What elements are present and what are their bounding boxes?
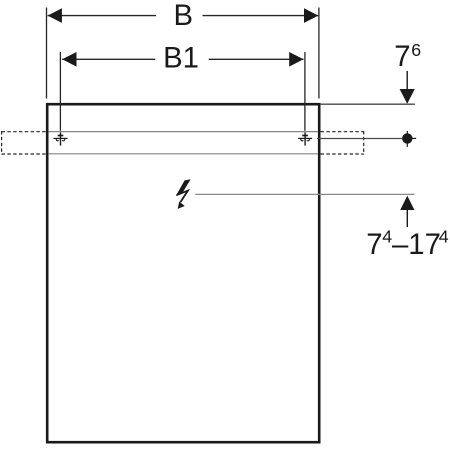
dimension B1 arrowhead left (62, 52, 76, 67)
screw anchor right (298, 132, 312, 145)
dimension B extension line right (318, 8, 320, 99)
svg-text:7: 7 (394, 40, 410, 73)
power connection line (195, 193, 414, 195)
dimension B arrowhead right (304, 8, 318, 23)
dimension B line left segment (48, 15, 156, 17)
dimension B arrowhead left (48, 8, 62, 23)
dimension B1 line left segment (62, 58, 155, 60)
dimension B1 extension line left (59, 52, 61, 131)
svg-text:–17: –17 (392, 228, 441, 261)
dashed rail extension right (321, 131, 364, 155)
fixing point crosshair right tick (410, 137, 416, 139)
dimension 7/6 arrowhead (400, 89, 415, 104)
dimension B1 arrowhead right (289, 52, 303, 67)
dimension B1 extension line right (304, 52, 306, 131)
fixing point line (317, 138, 402, 140)
svg-text:6: 6 (411, 40, 421, 60)
fixing point crosshair vertical (406, 131, 408, 147)
lightning bolt symbol (176, 179, 191, 209)
mounting rail upper line (49, 131, 318, 133)
dimension B1 line right segment (209, 58, 304, 60)
dashed rail extension left (2, 131, 46, 155)
dimension 74-174 arrowhead (400, 196, 414, 210)
fixing point dot (402, 133, 412, 143)
screw anchor left (54, 132, 68, 145)
mirror body outline (47, 104, 319, 442)
top edge reference line (321, 103, 415, 105)
svg-text:4: 4 (382, 227, 392, 247)
dimension B line right segment (203, 15, 319, 17)
svg-text:7: 7 (366, 228, 382, 261)
svg-text:B1: B1 (163, 42, 199, 75)
dimension B extension line left (46, 8, 48, 99)
svg-text:B: B (174, 0, 194, 32)
dimension 74-174 arrow shaft (406, 209, 408, 227)
svg-text:4: 4 (439, 227, 449, 247)
mounting rail lower line (49, 153, 318, 155)
dimension 7/6 arrow shaft (406, 71, 408, 90)
